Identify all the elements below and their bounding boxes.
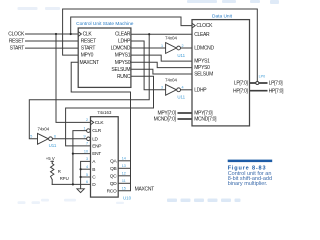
wire MAXCNT from RCO xyxy=(71,62,130,191)
svg-text:QA: QA xyxy=(110,158,117,164)
svg-text:U11: U11 xyxy=(49,143,57,148)
wire counter B stub xyxy=(81,168,91,170)
svg-text:CLR: CLR xyxy=(92,128,102,134)
svg-text:START: START xyxy=(10,46,25,52)
inverter U11a 74x04 LDMCND xyxy=(161,36,186,58)
svg-text:binary multiplier.: binary multiplier. xyxy=(228,181,268,187)
svg-text:CLEAR: CLEAR xyxy=(115,32,131,38)
svg-text:15: 15 xyxy=(122,187,126,191)
ground xyxy=(77,189,84,193)
svg-text:LDMCND: LDMCND xyxy=(111,46,131,52)
node junction CLEAR branch xyxy=(148,33,150,35)
svg-text:4: 4 xyxy=(182,86,184,90)
svg-text:5: 5 xyxy=(30,135,32,139)
wire counter C stub xyxy=(81,176,91,178)
wire MPYS0 xyxy=(131,62,192,67)
wire CLOCK top route to Data Unit xyxy=(71,17,192,34)
svg-text:RESET: RESET xyxy=(9,39,24,45)
node junction CLOCK-counter xyxy=(55,33,57,35)
node junction D pull-up xyxy=(72,183,74,185)
svg-text:QB: QB xyxy=(110,166,116,172)
wire U11b output to Data Unit LDHP xyxy=(181,89,192,91)
wire ground net A B C xyxy=(81,161,91,188)
node junction ENT pull-up xyxy=(72,153,74,155)
svg-text:MCND[7:0]: MCND[7:0] xyxy=(154,117,177,123)
svg-text:74x04: 74x04 xyxy=(37,126,49,131)
svg-text:QD: QD xyxy=(110,181,117,187)
pin LD bubble xyxy=(87,137,91,141)
wire counter QB stub xyxy=(118,167,130,169)
node junction C ground xyxy=(80,176,82,178)
svg-text:MPYS1: MPYS1 xyxy=(194,59,210,65)
svg-text:RUNC: RUNC xyxy=(117,74,131,80)
wire LDHP to inverter U11b xyxy=(131,41,166,90)
svg-text:5: 5 xyxy=(86,173,88,177)
svg-text:+5 V: +5 V xyxy=(46,156,55,161)
wire counter QD stub xyxy=(118,182,130,184)
wire counter CLR to pull-up net xyxy=(73,131,87,185)
svg-text:Data Unit: Data Unit xyxy=(212,13,233,19)
decorative skeleton dashes bottom xyxy=(18,199,125,204)
svg-text:U11: U11 xyxy=(177,53,185,58)
svg-text:CLK: CLK xyxy=(83,32,93,38)
resistor R RPU xyxy=(51,164,69,181)
wire LDMCND to inverter U11a xyxy=(131,47,166,49)
inverter U11b 74x04 LDHP xyxy=(161,77,186,99)
wire RUNC to counter ENP xyxy=(66,76,154,146)
svg-text:MPYS0: MPYS0 xyxy=(194,65,210,71)
svg-text:B: B xyxy=(92,167,95,173)
wire U11c output to counter LD xyxy=(52,138,87,140)
svg-text:6: 6 xyxy=(86,180,88,184)
svg-text:MPY0: MPY0 xyxy=(81,53,94,59)
svg-text:4: 4 xyxy=(86,165,88,169)
pin numbers counter left xyxy=(84,118,88,184)
svg-text:2: 2 xyxy=(182,44,184,48)
svg-text:RCO: RCO xyxy=(107,188,117,194)
node LP0 tap xyxy=(256,82,259,85)
svg-text:U10: U10 xyxy=(123,195,132,200)
svg-text:CLK: CLK xyxy=(95,120,105,126)
svg-text:13: 13 xyxy=(122,164,126,168)
decorative skeleton bars top xyxy=(18,7,61,10)
wire +5V to resistor xyxy=(51,161,53,163)
svg-text:CLEAR: CLEAR xyxy=(194,32,210,38)
svg-text:MPYS0: MPYS0 xyxy=(115,60,131,66)
bus LP[7:0] output xyxy=(250,82,268,84)
inverter U11c 74x04 LD xyxy=(30,126,57,148)
svg-text:3: 3 xyxy=(86,157,88,161)
svg-text:QC: QC xyxy=(110,173,117,179)
svg-text:RPU: RPU xyxy=(60,176,69,181)
svg-text:7: 7 xyxy=(86,142,88,146)
wire CLOCK to counter CLK xyxy=(56,34,91,122)
figure caption xyxy=(228,160,273,188)
svg-text:LP[7:0]: LP[7:0] xyxy=(234,81,249,87)
block U12 Data Unit xyxy=(192,20,250,126)
wire MPYS1 xyxy=(131,55,192,61)
block U10 74x163 counter xyxy=(91,117,119,197)
svg-text:ENT: ENT xyxy=(92,151,101,157)
wire counter QA stub xyxy=(118,160,130,162)
svg-text:14: 14 xyxy=(122,157,126,161)
svg-text:11: 11 xyxy=(122,179,126,183)
wire CLOCK input xyxy=(26,33,79,35)
svg-text:74x04: 74x04 xyxy=(165,36,177,41)
svg-text:U11: U11 xyxy=(177,95,185,100)
svg-text:2: 2 xyxy=(86,118,88,122)
svg-text:74x04: 74x04 xyxy=(165,77,177,82)
svg-text:6: 6 xyxy=(54,135,56,139)
wire CLEAR branch to LD inverter xyxy=(29,34,149,139)
svg-text:ENP: ENP xyxy=(92,144,101,150)
wire U11a output to Data Unit LDMCND xyxy=(181,47,192,49)
wire LP0 feedback to MPY0 xyxy=(63,9,258,82)
svg-text:START: START xyxy=(81,46,96,52)
svg-text:MCND[7:0]: MCND[7:0] xyxy=(194,117,217,123)
svg-text:CLOCK: CLOCK xyxy=(8,32,25,38)
wire CLEAR net xyxy=(131,33,192,35)
pin CLK clock wedge xyxy=(78,32,81,37)
pin CLK clock wedge xyxy=(91,120,94,125)
wire counter QC stub xyxy=(118,175,130,177)
svg-text:MPYS1: MPYS1 xyxy=(115,53,131,59)
block U1 Control Unit State Machine xyxy=(78,28,131,87)
pin CLOCK clock wedge xyxy=(192,23,195,28)
svg-text:LDMCND: LDMCND xyxy=(194,46,214,52)
svg-text:HP[7:0]: HP[7:0] xyxy=(233,88,248,94)
svg-text:1: 1 xyxy=(161,44,163,48)
wire counter ENT stub xyxy=(73,153,91,155)
svg-text:10: 10 xyxy=(84,149,88,153)
pin CLR bubble xyxy=(87,129,91,133)
wire resistor bottom xyxy=(51,180,53,185)
svg-text:MAXCNT: MAXCNT xyxy=(80,60,100,66)
svg-text:74x163: 74x163 xyxy=(97,110,112,115)
node junction CLOCK-top xyxy=(70,33,72,35)
svg-text:Control Unit State Machine: Control Unit State Machine xyxy=(76,21,134,27)
bus HP[7:0] output xyxy=(250,90,268,92)
svg-text:R: R xyxy=(58,169,61,174)
svg-text:HP[7:0]: HP[7:0] xyxy=(269,88,284,94)
svg-text:12: 12 xyxy=(122,172,126,176)
bus MCND[7:0] input xyxy=(178,118,193,120)
svg-text:LDHP: LDHP xyxy=(194,87,207,93)
bus MPY[7:0] input xyxy=(178,112,193,114)
svg-text:1: 1 xyxy=(84,126,86,130)
svg-text:9: 9 xyxy=(84,135,86,139)
svg-text:SELSUM: SELSUM xyxy=(111,67,130,73)
wire SELSUM xyxy=(131,69,192,74)
wire RESET input xyxy=(26,40,79,42)
svg-text:3: 3 xyxy=(161,86,163,90)
svg-text:LP[7:0]: LP[7:0] xyxy=(269,81,284,87)
svg-text:LD: LD xyxy=(92,136,98,142)
svg-text:MAXCNT: MAXCNT xyxy=(135,187,155,193)
pin numbers counter right xyxy=(122,157,126,191)
svg-text:LP0: LP0 xyxy=(259,75,266,79)
svg-text:CLOCK: CLOCK xyxy=(196,23,213,29)
svg-text:SELSUM: SELSUM xyxy=(194,72,213,78)
svg-text:LDHP: LDHP xyxy=(118,39,131,45)
wire START input xyxy=(26,47,79,49)
node junction B ground xyxy=(80,168,82,170)
wire RPU to counter D xyxy=(52,183,90,185)
svg-text:RESET: RESET xyxy=(81,39,96,45)
